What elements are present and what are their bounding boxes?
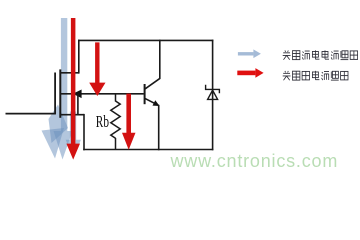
MOSFET Q1 body arrow xyxy=(73,90,82,99)
wire emitter vertical xyxy=(158,105,160,150)
MOSFET Q1 source internal vertical xyxy=(77,94,79,115)
wire gate lead xyxy=(6,113,56,115)
transistor Q2 emitter diagonal xyxy=(145,99,159,106)
MOSFET Q1 source stub xyxy=(60,114,85,116)
transistor Q2 base bar xyxy=(144,84,146,104)
MOSFET Q1 drain stub xyxy=(60,72,79,74)
red arrow A1 turn-off current through MOSFET xyxy=(66,18,80,160)
legend blue arrow xyxy=(238,49,261,58)
zener diode D1 cathode bar xyxy=(206,85,220,94)
legend red arrow xyxy=(237,68,263,78)
wire top rail xyxy=(78,39,213,41)
zener diode D1 triangle xyxy=(208,90,218,99)
resistor Rb zigzag xyxy=(111,101,120,138)
legend blue text: 关断之前电流通路 (glyph boxes) xyxy=(283,50,358,59)
resistor Rb top lead xyxy=(115,94,117,102)
wire source drop xyxy=(83,114,85,150)
resistor Rb bottom lead xyxy=(115,138,117,150)
transistor Q2 emitter arrowhead xyxy=(153,100,160,106)
wire zener branch vertical xyxy=(212,40,214,151)
red arrow A3 through Rb xyxy=(122,94,136,150)
wire collector vertical xyxy=(159,40,161,79)
blue arrow path diagonal segment bottom-left xyxy=(49,105,69,144)
svg-text:Rb: Rb xyxy=(96,112,109,131)
wire bottom rail xyxy=(83,149,213,151)
transistor Q2 collector diagonal xyxy=(145,78,160,89)
blue arrow head bottom-left xyxy=(42,128,65,159)
svg-text:www.cntronics.com: www.cntronics.com xyxy=(170,151,339,171)
wire drain vertical xyxy=(78,40,80,74)
blue arrow path (before turn-off) vertical band through MOSFET xyxy=(54,18,73,160)
blue arrow behind red arrow A1 xyxy=(66,112,81,159)
MOSFET Q1 gate bar xyxy=(54,73,56,115)
red arrow A2 into base wire xyxy=(89,42,105,96)
wire MOSFET body to BJT base xyxy=(60,93,144,95)
MOSFET Q1 channel bar xyxy=(59,69,61,117)
legend red text: 关断时电流通路 (glyph boxes) xyxy=(283,71,348,80)
